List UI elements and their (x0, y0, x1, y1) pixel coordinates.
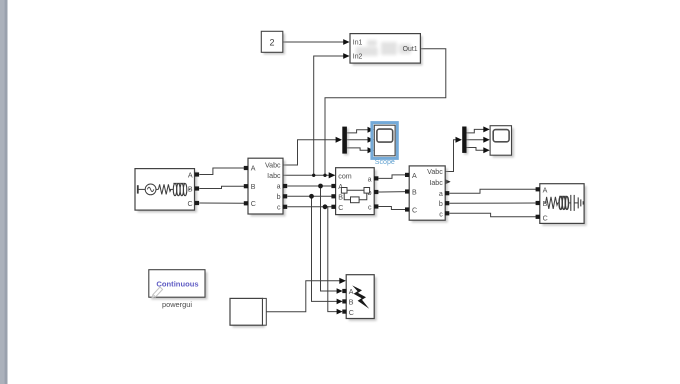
svg-text:C: C (412, 207, 417, 215)
svg-text:a: a (439, 190, 443, 198)
arrowheads into fault A B C (337, 288, 343, 294)
svg-text:A: A (543, 186, 548, 194)
svg-text:C: C (349, 309, 354, 317)
fault icon: lightning bolt (352, 285, 369, 308)
svg-text:A: A (412, 172, 417, 180)
three-phase RLC load block Z1 (536, 184, 587, 226)
svg-text:C: C (338, 204, 343, 212)
junction dot Out1 branch (323, 174, 326, 177)
arrowhead into In2 (343, 53, 349, 59)
svg-text:B: B (188, 185, 193, 193)
source icon: inductor (173, 184, 176, 196)
constant block K1 value 2 (261, 31, 285, 54)
svg-text:In2: In2 (353, 53, 363, 60)
wire: step block to fault control (266, 281, 344, 312)
fault port nubs (342, 289, 346, 314)
wire: breaker b to meas2 B (379, 191, 407, 193)
svg-text:c: c (277, 203, 281, 211)
svg-text:A: A (349, 288, 354, 296)
wire: demux2 out2 to scope2 in2 (467, 139, 489, 141)
arrowhead into fault control (339, 278, 346, 284)
arrowhead into demux2 (456, 137, 462, 143)
wire: Vabc2 to Demux2 (445, 140, 460, 172)
arrowheads into scope2 inputs (483, 126, 489, 132)
wire: branch c down to fault C (325, 207, 342, 312)
svg-text:B: B (251, 183, 256, 191)
powergui block (149, 270, 208, 309)
svg-text:B: B (338, 193, 343, 201)
svg-text:b: b (277, 193, 281, 201)
wire: meas1 a to breaker A (287, 185, 332, 187)
wire: demux1 out2 to scope1 in2 (347, 139, 373, 141)
breaker icon: contacts and snubber (341, 188, 369, 203)
wire: branch up to In2 (314, 56, 349, 175)
wire: breaker a to meas2 A (379, 175, 407, 179)
wire: Vabc1 to Demux1 (283, 140, 341, 165)
demux D2 (462, 127, 468, 155)
svg-text:In1: In1 (353, 39, 363, 46)
svg-text:Continuous: Continuous (156, 280, 198, 289)
unconnected Iabc2 output arrow (444, 179, 450, 185)
junction dot In2 branch (312, 174, 315, 177)
svg-text:A: A (188, 171, 193, 179)
svg-text:powergui: powergui (162, 300, 192, 309)
svg-text:Iabc: Iabc (429, 179, 443, 187)
svg-text:Vabc: Vabc (265, 162, 281, 170)
svg-text:c: c (439, 210, 443, 218)
arrowhead into breaker com (329, 172, 336, 178)
wire: demux1 out1 to scope1 in1 (347, 130, 373, 133)
junction dot on c-wire (323, 204, 328, 209)
wire: demux1 out3 to scope1 in3 (347, 148, 373, 150)
wire: Out1 feedback (right, down, left, down to com net) (325, 49, 446, 176)
wire: meas1 c to breaker C (287, 206, 332, 208)
load port nubs (536, 187, 540, 219)
arrowhead into demux1 (336, 137, 342, 143)
wire: demux2 out3 to scope2 in3 (467, 148, 489, 151)
three-phase breaker block B1 (331, 168, 378, 217)
left scrollbar strip (0, 0, 8, 384)
junction dot on b-wire (309, 194, 314, 199)
svg-text:Iabc: Iabc (267, 172, 281, 180)
meas2 port nubs (405, 173, 449, 216)
junction dot on a-wire (318, 184, 323, 189)
svg-text:com: com (338, 172, 351, 180)
scope block Scope1 (490, 126, 514, 158)
source icon: resistor (158, 184, 171, 194)
wire: branch b down to fault B (312, 196, 342, 301)
wire: source C to meas1 C (199, 202, 244, 204)
svg-text:2: 2 (269, 37, 274, 47)
meas1 port nubs (244, 166, 287, 209)
svg-text:Scope: Scope (375, 158, 395, 166)
three-phase source block V1 (135, 169, 199, 213)
source port nubs A B C (195, 172, 199, 205)
svg-text:c: c (368, 203, 372, 211)
wire: Iabc1 to breaker com (283, 174, 335, 176)
source icon: AC source circle (145, 184, 156, 195)
three-phase V-I measurement block M2 (405, 166, 449, 223)
svg-text:C: C (543, 214, 548, 222)
step source block S1 (blank) (230, 298, 266, 327)
svg-text:a: a (277, 183, 281, 191)
arrowheads into scope1 inputs (368, 127, 374, 133)
scope block Scope (selected) (372, 123, 397, 166)
load icon: R L C ground (544, 195, 583, 211)
wire: meas2 b to load B (450, 202, 537, 204)
three-phase fault block F1 (342, 275, 376, 321)
svg-text:b: b (439, 200, 443, 208)
subsystem U1 (In1 In2 / Out1) (350, 34, 423, 66)
wire: source A to meas1 A (199, 168, 244, 175)
wire: source B to meas1 B (199, 186, 244, 188)
wire: meas2 a to load A (450, 189, 537, 193)
svg-text:Vabc: Vabc (427, 168, 443, 176)
svg-text:C: C (187, 200, 192, 208)
wire: meas1 b to breaker B (287, 195, 332, 197)
svg-text:C: C (251, 200, 256, 208)
svg-text:B: B (412, 189, 417, 197)
wire: breaker c to meas2 C (379, 207, 407, 210)
arrowhead into In1 (343, 39, 349, 45)
svg-text:a: a (368, 175, 372, 183)
svg-text:B: B (349, 299, 354, 307)
svg-text:A: A (251, 165, 256, 173)
wire: meas2 c to load C (450, 213, 537, 217)
three-phase V-I measurement block M1 (244, 158, 287, 216)
wire: demux2 out1 to scope2 in1 (467, 129, 489, 133)
svg-text:Out1: Out1 (403, 46, 418, 53)
wire: branch a down to fault A (321, 186, 342, 291)
wire: Constant 2 to In1 (283, 41, 349, 43)
breaker port nubs (331, 176, 378, 209)
demux D1 (342, 127, 348, 156)
powergui pencil icon (152, 283, 164, 297)
source icon: terminal bar (138, 183, 190, 195)
